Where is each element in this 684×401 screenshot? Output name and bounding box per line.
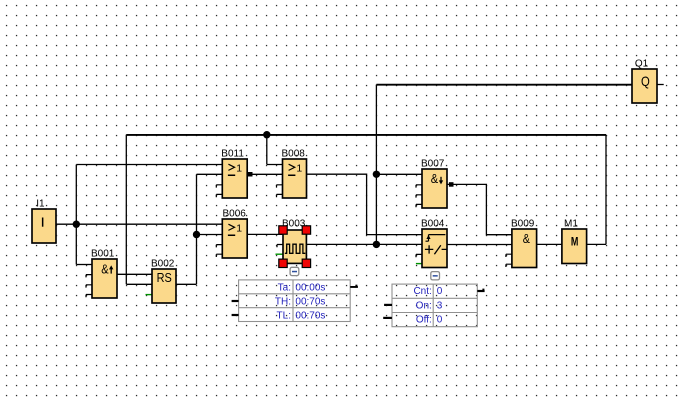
collapse button B004 <box>431 272 440 280</box>
wire B006 out to B003 En <box>247 233 283 235</box>
block B001 AND-edge <box>92 259 117 298</box>
wire B002 out up <box>176 174 197 284</box>
node junction feedback to B008 <box>263 131 270 138</box>
table B004 output stub <box>477 290 484 292</box>
svg-text:00:70s: 00:70s <box>295 297 325 308</box>
wire feedback left vertical <box>125 135 127 285</box>
block B004 up-down counter <box>422 229 447 268</box>
block B002 RS <box>152 269 176 303</box>
svg-text:00:70s: 00:70s <box>295 310 325 321</box>
svg-text:B008: B008 <box>282 149 306 160</box>
wire B007 out to B009 in1 <box>447 184 512 234</box>
svg-text:B007: B007 <box>421 159 445 170</box>
B003 Inv input stub <box>277 245 283 248</box>
svg-text:0: 0 <box>437 286 443 297</box>
svg-text:1: 1 <box>296 162 302 174</box>
wire M1 out feedback <box>126 135 606 285</box>
block B011 OR <box>222 159 247 198</box>
B011 input stubs <box>216 185 222 197</box>
table B004 input stub On <box>384 304 392 306</box>
wire to B006 in2 <box>197 234 223 236</box>
block B009 AND <box>512 229 537 268</box>
wire to Q1 <box>376 84 632 86</box>
svg-text:RS: RS <box>157 271 172 285</box>
wire B004 out to B009 in2 <box>447 244 512 246</box>
wire feedback branch to B008 in1 <box>267 135 283 165</box>
B004 Par stub <box>416 263 422 265</box>
svg-text:Ta:: Ta: <box>278 283 291 294</box>
block B006 OR <box>222 219 247 258</box>
table B004 input stub Off <box>383 317 392 319</box>
svg-text:&: & <box>431 172 439 186</box>
selection handle B003 bottom-left <box>279 259 287 267</box>
svg-text:Cnt:: Cnt: <box>413 286 431 297</box>
svg-text:B001: B001 <box>91 249 115 260</box>
wire I1 out to B006 in1 <box>56 223 222 225</box>
selection handle B003 top-left <box>279 226 287 234</box>
svg-text:0: 0 <box>437 315 443 326</box>
wire to B007 in1 <box>376 173 422 175</box>
wire B008 out to B004 R <box>307 174 423 234</box>
node pin marker B007 out <box>449 182 454 187</box>
svg-text:M: M <box>571 234 579 248</box>
block B003 pulse generator <box>283 230 306 263</box>
block M1 flag <box>562 229 587 264</box>
node junction I1 out <box>73 221 80 228</box>
B009 input stubs <box>506 254 512 267</box>
table B003 output stub <box>350 286 358 288</box>
block B008 OR <box>283 159 307 198</box>
block B007 NAND-edge <box>422 169 447 208</box>
svg-text:B002: B002 <box>151 259 175 270</box>
selection handle B003 top-right <box>302 226 310 234</box>
svg-text:B006: B006 <box>223 209 247 220</box>
wire to B011 in2 <box>197 173 223 175</box>
wire B003 out to B004 Cnt <box>306 243 422 245</box>
svg-text:&: & <box>523 232 531 246</box>
wire vertical at x=376 <box>375 85 377 245</box>
svg-text:B011: B011 <box>221 149 244 160</box>
svg-text:M1: M1 <box>564 219 578 230</box>
svg-text:3: 3 <box>437 300 443 311</box>
B002 Par stub <box>146 294 153 296</box>
svg-text:On:: On: <box>416 300 432 311</box>
node junction B003 out to B007 <box>373 171 380 178</box>
svg-text:&: & <box>101 262 109 276</box>
wire to B001 in1 <box>76 264 92 266</box>
wire feedback long horizontal <box>126 134 606 136</box>
B008 input stubs <box>277 185 283 197</box>
parameter table B004 <box>383 284 484 327</box>
wire vertical branch at x=76 <box>75 165 77 265</box>
wire Q1 out stub <box>657 84 664 86</box>
svg-text:Q1: Q1 <box>635 59 649 70</box>
green parameter stubs <box>146 254 423 294</box>
block I1 <box>32 209 56 243</box>
svg-text:TH:: TH: <box>275 297 291 308</box>
node junction B003 out to B004 <box>373 241 380 248</box>
svg-text:TL:: TL: <box>277 310 291 321</box>
table B003 input stub TL <box>232 314 239 316</box>
table B003 input stub TH <box>232 300 239 302</box>
unconnected input stubs (hooks) <box>86 185 512 297</box>
B007 input stubs <box>416 185 422 207</box>
node pin marker B011 out <box>248 172 253 177</box>
B006 input stubs <box>216 245 222 257</box>
collapse button B003 <box>290 267 299 275</box>
wire B001 out to B002 S <box>117 273 152 275</box>
svg-text:I1: I1 <box>36 199 45 210</box>
wire B011 out to B008 in2 <box>247 173 282 175</box>
B001 input stubs <box>86 275 92 298</box>
block Q1 output <box>632 69 657 103</box>
selection handle B003 bottom-right <box>302 259 310 267</box>
node junction B002 out branch <box>193 231 200 238</box>
svg-text:1: 1 <box>236 222 242 234</box>
wire B009 out to M1 <box>537 243 562 245</box>
wire to B011 in1 <box>76 164 222 166</box>
svg-text:Off:: Off: <box>416 315 432 326</box>
parameter table B003 <box>232 280 358 322</box>
svg-text:00:00s: 00:00s <box>295 283 325 294</box>
B003 Par stub <box>276 253 284 255</box>
svg-text:1: 1 <box>236 162 242 174</box>
svg-text:B004: B004 <box>421 219 445 230</box>
svg-text:B009: B009 <box>511 219 535 230</box>
B004 Dir input stub <box>416 254 422 257</box>
svg-text:Q: Q <box>641 73 650 89</box>
